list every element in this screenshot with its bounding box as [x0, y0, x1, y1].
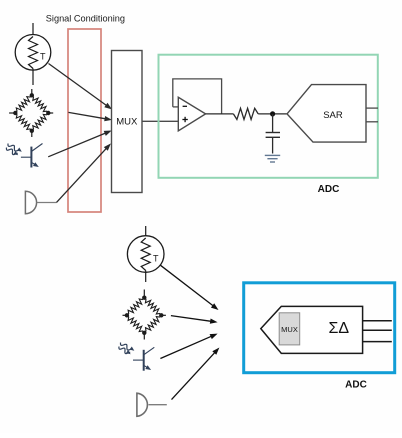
op-amp U1	[178, 97, 205, 131]
wire arrow: phototransistor to MUX	[48, 133, 105, 157]
ADC (sigma-delta) blue box	[244, 283, 395, 373]
sigma-delta modulator block	[261, 306, 363, 353]
signal-conditioning red box	[68, 29, 101, 212]
svg-text:ADC: ADC	[345, 380, 367, 391]
ADC (SAR) green box	[159, 55, 378, 178]
temperature sensor RTD (top)	[15, 23, 51, 85]
wire arrow: microphone to sigma-delta ADC	[172, 352, 216, 399]
node junction dot	[270, 111, 275, 116]
wire: resistor to SAR with node	[258, 113, 287, 115]
phototransistor sensor (bottom)	[119, 343, 154, 371]
wire arrow: RTD to sigma-delta ADC	[161, 265, 214, 306]
capacitor C1	[266, 114, 280, 154]
internal MUX block	[279, 313, 300, 345]
wire arrow: RTD to MUX	[49, 64, 107, 106]
svg-text:MUX: MUX	[281, 325, 298, 334]
wire: op-amp output to resistor	[206, 113, 234, 115]
temperature sensor RTD (bottom)	[127, 226, 164, 282]
SAR output wires	[366, 107, 378, 109]
wire arrow: phototransistor to sigma-delta ADC	[160, 336, 211, 358]
phototransistor sensor (top)	[6, 144, 42, 168]
ground	[265, 155, 280, 162]
svg-text:MUX: MUX	[116, 116, 138, 127]
wire arrow: bridge to sigma-delta ADC	[171, 316, 211, 322]
wire arrow: microphone to MUX	[57, 148, 107, 202]
bridge sensor (top)	[9, 89, 53, 137]
resistor R1	[233, 108, 258, 119]
svg-text:T: T	[40, 52, 46, 62]
svg-text:SAR: SAR	[323, 110, 343, 121]
feedback wire loop around op-amp U1	[173, 79, 222, 114]
wire arrow: bridge to MUX	[68, 112, 105, 118]
wire: MUX output to op-amp	[142, 120, 178, 122]
svg-text:ΣΔ: ΣΔ	[329, 320, 350, 337]
bridge sensor (bottom)	[123, 290, 166, 340]
svg-text:T: T	[153, 254, 159, 264]
svg-text:Signal Conditioning: Signal Conditioning	[46, 14, 125, 24]
MUX block (top)	[112, 51, 143, 193]
svg-text:ADC: ADC	[318, 184, 340, 195]
microphone sensor (bottom)	[137, 393, 167, 416]
SAR block	[287, 85, 366, 143]
sigma-delta output wires	[363, 321, 392, 342]
microphone sensor (top)	[25, 191, 56, 213]
